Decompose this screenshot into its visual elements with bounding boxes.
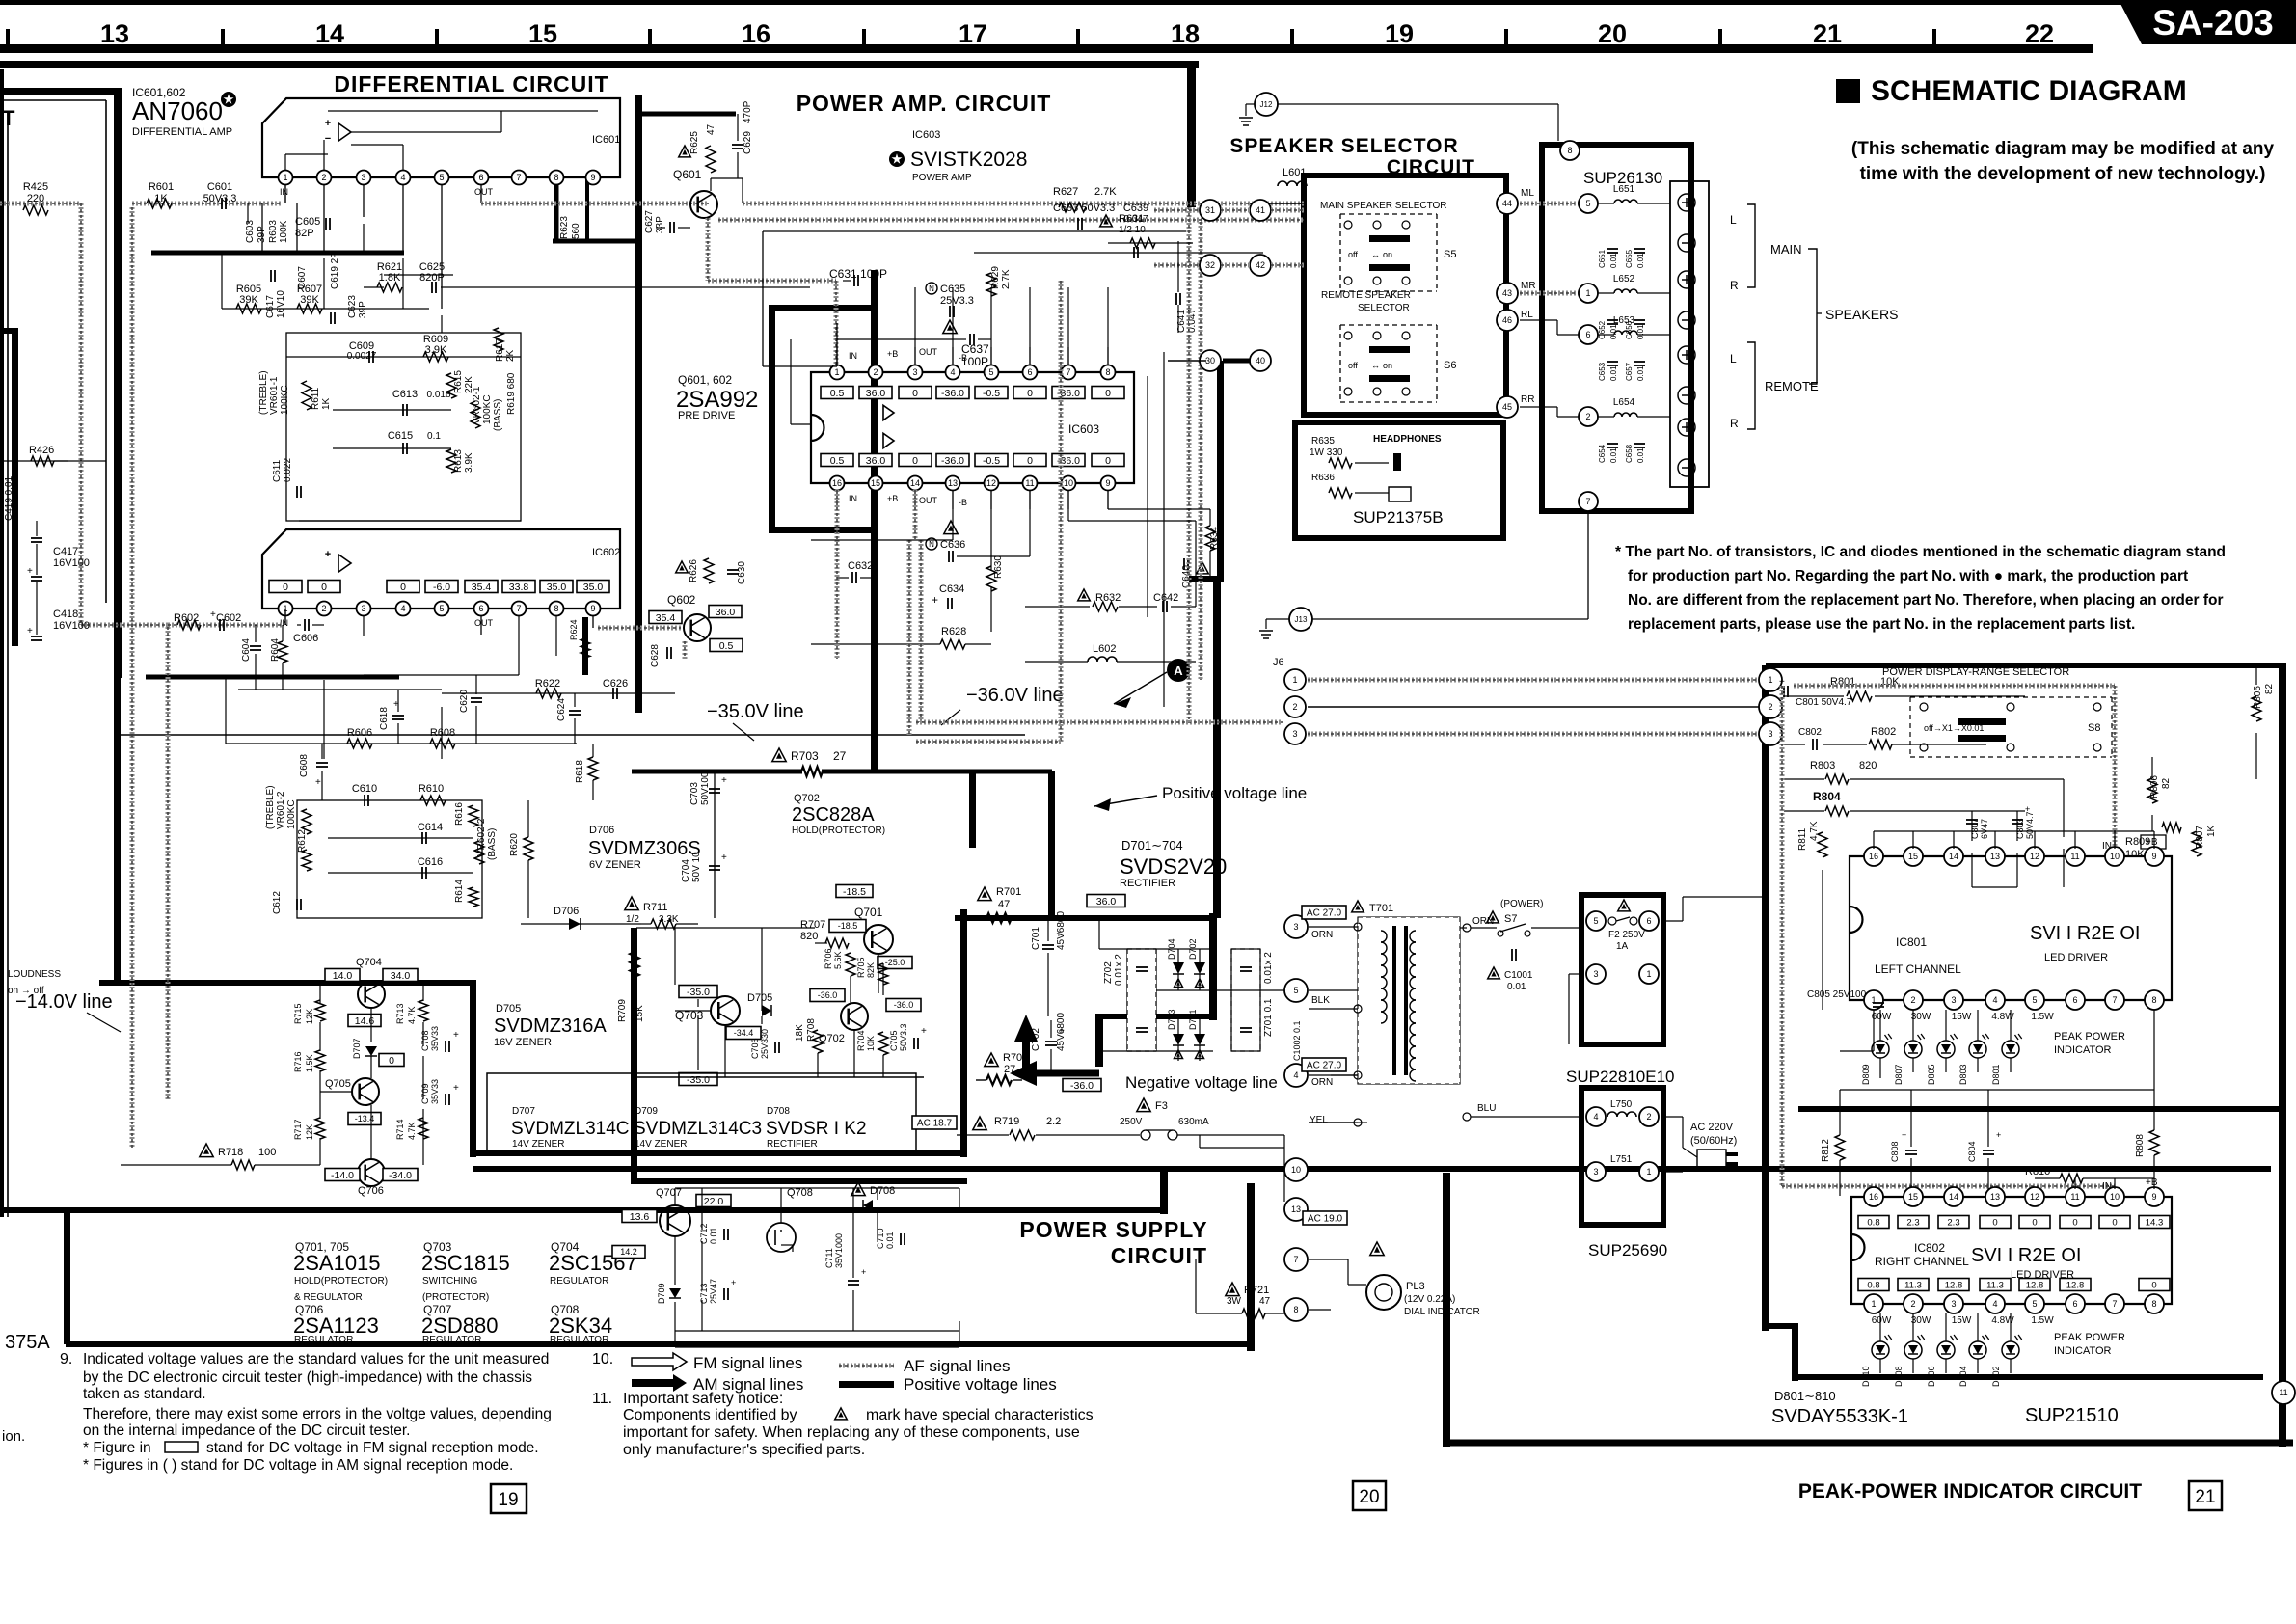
svg-text:R627: R627 <box>1053 186 1078 198</box>
svg-text:2: 2 <box>1768 702 1772 712</box>
svg-text:R714: R714 <box>395 1119 405 1140</box>
svg-text:11: 11 <box>2070 852 2079 861</box>
svg-text:18: 18 <box>1171 19 1200 48</box>
svg-text:off→X1→X0.01: off→X1→X0.01 <box>1924 723 1984 733</box>
svg-text:C613: C613 <box>392 389 418 400</box>
svg-text:13: 13 <box>1990 852 2000 861</box>
svg-text:SVDMZL314C: SVDMZL314C <box>511 1119 630 1139</box>
svg-text:L654: L654 <box>1613 397 1635 408</box>
svg-text:100KC: 100KC <box>280 385 290 415</box>
svg-text:Q702: Q702 <box>794 793 820 804</box>
svg-text:R721: R721 <box>1244 1285 1269 1296</box>
svg-text:(This schematic diagram may be: (This schematic diagram may be modified … <box>1851 139 2275 159</box>
svg-text:C657: C657 <box>1625 362 1634 381</box>
svg-text:2: 2 <box>1910 1299 1915 1309</box>
svg-text:82: 82 <box>2161 777 2172 789</box>
svg-text:12.8: 12.8 <box>1945 1280 1963 1290</box>
svg-text:SVDMZ316A: SVDMZ316A <box>494 1015 607 1037</box>
svg-text:3: 3 <box>1293 922 1298 932</box>
svg-text:12K: 12K <box>305 1009 314 1024</box>
svg-text:7: 7 <box>1293 1255 1298 1264</box>
svg-text:2: 2 <box>321 173 326 182</box>
svg-text:IC602: IC602 <box>592 547 620 558</box>
svg-text:3.9K: 3.9K <box>464 452 474 473</box>
svg-text:8: 8 <box>1567 146 1572 155</box>
svg-text:on: on <box>1383 361 1392 370</box>
svg-text:off: off <box>1348 250 1358 259</box>
svg-text:16V ZENER: 16V ZENER <box>494 1037 552 1048</box>
svg-text:21: 21 <box>1813 19 1842 48</box>
svg-text:7: 7 <box>2112 995 2117 1005</box>
svg-text:T701: T701 <box>1369 903 1393 914</box>
svg-text:0.5: 0.5 <box>830 388 845 399</box>
svg-text:D707: D707 <box>352 1038 362 1059</box>
svg-text:MAIN: MAIN <box>1770 242 1802 257</box>
svg-text:0.1: 0.1 <box>427 431 441 442</box>
svg-text:SWITCHING: SWITCHING <box>422 1276 477 1286</box>
svg-text:4: 4 <box>1293 1070 1298 1080</box>
svg-text:D801∼810: D801∼810 <box>1774 1389 1836 1403</box>
svg-text:50V3.3: 50V3.3 <box>899 1023 908 1051</box>
svg-text:36.0: 36.0 <box>1096 896 1117 907</box>
svg-text:-6.0: -6.0 <box>433 582 450 593</box>
svg-text:R716: R716 <box>293 1051 303 1072</box>
svg-text:C606: C606 <box>293 633 318 644</box>
svg-text:0.0027: 0.0027 <box>347 351 377 362</box>
svg-text:R614: R614 <box>454 880 465 903</box>
svg-text:9: 9 <box>590 604 595 613</box>
svg-text:C607: C607 <box>297 266 308 289</box>
svg-text:+: + <box>210 609 216 620</box>
svg-text:35.4: 35.4 <box>656 612 676 624</box>
svg-text:D709: D709 <box>657 1283 666 1304</box>
svg-text:15K: 15K <box>635 1005 645 1022</box>
svg-text:C652: C652 <box>1598 320 1607 339</box>
svg-text:16: 16 <box>1869 1192 1878 1202</box>
svg-text:D809: D809 <box>1861 1064 1871 1085</box>
svg-text:1.8K: 1.8K <box>379 272 401 284</box>
svg-text:R704: R704 <box>856 1030 866 1051</box>
svg-text:& REGULATOR: & REGULATOR <box>294 1292 363 1303</box>
svg-text:0.01x 2: 0.01x 2 <box>1114 954 1124 986</box>
svg-text:0.01: 0.01 <box>1636 365 1645 381</box>
svg-text:C801 50V4.7: C801 50V4.7 <box>1796 697 1852 708</box>
svg-text:important for safety. When rep: important for safety. When replacing any… <box>623 1424 1080 1441</box>
svg-text:1.5W: 1.5W <box>2031 1012 2054 1022</box>
svg-text:D705: D705 <box>747 992 772 1004</box>
svg-text:J13: J13 <box>1295 615 1308 624</box>
svg-text:L652: L652 <box>1613 274 1635 284</box>
svg-text:47: 47 <box>998 899 1010 910</box>
svg-text:R634: R634 <box>1209 527 1220 550</box>
svg-text:21: 21 <box>2195 1487 2215 1507</box>
svg-text:DIAL INDICATOR: DIAL INDICATOR <box>1404 1307 1480 1317</box>
svg-text:15: 15 <box>528 19 557 48</box>
svg-text:C601: C601 <box>207 181 232 193</box>
svg-text:R612: R612 <box>297 829 308 853</box>
svg-text:-36.0: -36.0 <box>1070 1080 1094 1092</box>
svg-text:CIRCUIT: CIRCUIT <box>1111 1243 1207 1268</box>
svg-text:2: 2 <box>1646 1112 1651 1122</box>
svg-text:ion.: ion. <box>2 1428 25 1445</box>
svg-text:2.3: 2.3 <box>1947 1217 1959 1228</box>
svg-text:R811: R811 <box>1797 827 1808 851</box>
svg-text:POWER AMP: POWER AMP <box>912 173 972 183</box>
svg-text:30W: 30W <box>1911 1012 1931 1022</box>
svg-text:+: + <box>27 566 33 577</box>
svg-text:39K: 39K <box>300 294 319 306</box>
svg-text:R425: R425 <box>23 181 48 193</box>
svg-text:50V3.3: 50V3.3 <box>203 193 237 204</box>
svg-text:6: 6 <box>478 604 483 613</box>
svg-text:R624: R624 <box>569 619 579 640</box>
svg-text:C418: C418 <box>53 609 78 620</box>
svg-text:-36.0: -36.0 <box>818 990 838 1000</box>
svg-text:0.022: 0.022 <box>283 458 293 482</box>
svg-text:Q707: Q707 <box>656 1187 682 1199</box>
svg-text:+B: +B <box>887 494 898 503</box>
svg-text:0: 0 <box>1992 1217 1997 1228</box>
svg-text:25V47: 25V47 <box>709 1279 718 1304</box>
svg-text:R803: R803 <box>1810 760 1835 771</box>
svg-text:SUP22810E10: SUP22810E10 <box>1566 1068 1674 1086</box>
svg-text:RECTIFIER: RECTIFIER <box>1120 878 1175 889</box>
svg-text:100KC: 100KC <box>482 394 493 424</box>
svg-text:S8: S8 <box>2088 722 2100 734</box>
svg-text:OUT: OUT <box>919 347 938 357</box>
svg-text:3.9K: 3.9K <box>425 344 447 356</box>
svg-text:11: 11 <box>1025 478 1034 488</box>
svg-text:Negative voltage line: Negative voltage line <box>1125 1073 1278 1092</box>
svg-text:10K: 10K <box>2125 849 2145 860</box>
svg-text:−14.0V line: −14.0V line <box>15 991 113 1013</box>
svg-text:8: 8 <box>2151 1299 2156 1309</box>
svg-text:−: − <box>325 133 331 145</box>
svg-text:C656: C656 <box>1625 320 1634 339</box>
svg-text:1: 1 <box>1646 1167 1651 1177</box>
svg-text:15: 15 <box>871 478 880 488</box>
svg-text:R719: R719 <box>994 1116 1019 1127</box>
svg-text:C616: C616 <box>418 856 443 868</box>
svg-text:+: + <box>721 775 727 786</box>
svg-text:2SC828A: 2SC828A <box>792 804 875 826</box>
svg-text:−35.0V line: −35.0V line <box>707 701 804 722</box>
svg-text:5: 5 <box>988 367 993 377</box>
svg-text:0.5: 0.5 <box>830 455 845 467</box>
svg-text:11.: 11. <box>592 1391 612 1407</box>
svg-text:31: 31 <box>1205 205 1215 215</box>
svg-text:14: 14 <box>1949 1192 1958 1202</box>
svg-text:0.01: 0.01 <box>1609 365 1618 381</box>
svg-text:+: + <box>921 1026 927 1037</box>
svg-text:4.7K: 4.7K <box>407 1122 417 1140</box>
svg-text:* Figure in: * Figure in <box>83 1440 151 1456</box>
svg-text:C639: C639 <box>1123 203 1148 214</box>
svg-text:14: 14 <box>1949 852 1958 861</box>
svg-text:R632: R632 <box>1095 592 1121 604</box>
svg-text:39K: 39K <box>239 294 258 306</box>
svg-text:L602: L602 <box>1093 643 1116 655</box>
svg-text:-36.0: -36.0 <box>941 388 964 399</box>
svg-text:IN: IN <box>849 494 857 503</box>
svg-text:4.7K: 4.7K <box>1809 821 1820 841</box>
svg-text:R608: R608 <box>430 727 455 739</box>
svg-text:AC 27.0: AC 27.0 <box>1307 1061 1342 1071</box>
svg-text:1: 1 <box>834 367 839 377</box>
svg-text:SVI I R2E OI: SVI I R2E OI <box>2030 923 2140 944</box>
svg-text:17: 17 <box>959 19 987 48</box>
svg-text:Therefore, there may exist som: Therefore, there may exist some errors i… <box>83 1406 552 1422</box>
svg-text:R707: R707 <box>800 919 825 931</box>
svg-text:+: + <box>1056 930 1062 940</box>
svg-text:R610: R610 <box>419 783 444 795</box>
svg-text:2: 2 <box>321 604 326 613</box>
svg-text:N: N <box>929 540 934 549</box>
svg-text:9: 9 <box>2151 852 2156 861</box>
svg-text:1: 1 <box>1646 969 1651 979</box>
svg-text:T: T <box>2 106 15 130</box>
svg-text:4: 4 <box>1992 1299 1997 1309</box>
svg-text:SPEAKERS: SPEAKERS <box>1825 307 1898 322</box>
svg-text:REGULATOR: REGULATOR <box>550 1276 608 1286</box>
svg-text:3: 3 <box>912 367 917 377</box>
svg-text:stand for DC voltage in FM sig: stand for DC voltage in FM signal recept… <box>206 1440 539 1456</box>
svg-text:9: 9 <box>590 173 595 182</box>
svg-text:SVDMZL314C3: SVDMZL314C3 <box>634 1119 762 1139</box>
svg-text:560: 560 <box>571 223 581 239</box>
svg-text:12: 12 <box>2030 852 2039 861</box>
svg-text:6: 6 <box>2072 995 2077 1005</box>
svg-text:R: R <box>1730 417 1739 430</box>
svg-text:+: + <box>731 1278 736 1287</box>
svg-text:0.01: 0.01 <box>1636 253 1645 268</box>
svg-text:250V: 250V <box>1120 1117 1143 1127</box>
svg-text:FM signal lines: FM signal lines <box>693 1354 802 1372</box>
svg-text:OUT: OUT <box>919 496 938 505</box>
svg-text:-34.0: -34.0 <box>389 1170 412 1181</box>
svg-text:R703: R703 <box>791 749 819 763</box>
svg-text:13: 13 <box>1291 1204 1301 1214</box>
svg-text:630mA: 630mA <box>1178 1117 1209 1127</box>
svg-text:IC802: IC802 <box>1914 1241 1945 1255</box>
svg-text:8: 8 <box>2151 995 2156 1005</box>
svg-text:R620: R620 <box>509 833 520 856</box>
svg-text:DIFFERENTIAL AMP: DIFFERENTIAL AMP <box>132 126 232 138</box>
svg-text:12K: 12K <box>305 1124 314 1140</box>
svg-text:Positive voltage line: Positive voltage line <box>1162 784 1307 802</box>
svg-text:SVI I R2E OI: SVI I R2E OI <box>1971 1245 2081 1266</box>
svg-text:0.01: 0.01 <box>885 1232 895 1249</box>
svg-text:C708: C708 <box>420 1030 430 1051</box>
svg-text:C802: C802 <box>1798 727 1822 738</box>
svg-text:time with the development of n: time with the development of new technol… <box>1860 164 2266 184</box>
svg-text:0: 0 <box>400 582 406 593</box>
svg-text:0: 0 <box>1027 455 1033 467</box>
svg-text:39P: 39P <box>358 301 368 318</box>
svg-text:11: 11 <box>2279 1388 2287 1397</box>
svg-text:+: + <box>27 626 33 636</box>
svg-text:OUT: OUT <box>474 187 494 197</box>
svg-text:4.8W: 4.8W <box>1991 1012 2014 1022</box>
svg-text:12: 12 <box>2030 1192 2039 1202</box>
svg-text:S5: S5 <box>1444 249 1456 260</box>
svg-text:R601: R601 <box>149 181 174 193</box>
svg-text:↔: ↔ <box>1371 361 1380 370</box>
svg-text:C627: C627 <box>644 210 655 233</box>
svg-text:3: 3 <box>1593 969 1598 979</box>
svg-text:C804: C804 <box>1967 1141 1977 1162</box>
svg-text:C808: C808 <box>1890 1141 1900 1162</box>
svg-text:AC 220V: AC 220V <box>1690 1122 1734 1133</box>
svg-text:2.7K: 2.7K <box>1001 269 1012 289</box>
svg-text:19: 19 <box>1385 19 1414 48</box>
svg-text:R718: R718 <box>218 1147 243 1158</box>
svg-text:L601: L601 <box>1283 167 1306 178</box>
svg-text:7: 7 <box>2112 1299 2117 1309</box>
svg-text:0.5: 0.5 <box>719 640 734 652</box>
svg-text:3: 3 <box>361 604 365 613</box>
svg-text:C623: C623 <box>347 295 358 318</box>
svg-text:2.7K: 2.7K <box>1094 186 1117 198</box>
svg-text:D701: D701 <box>1188 1009 1198 1030</box>
svg-text:by the DC electronic circuit t: by the DC electronic circuit tester (hig… <box>83 1369 532 1386</box>
svg-text:S7: S7 <box>1504 913 1517 925</box>
svg-text:12.8: 12.8 <box>2066 1280 2085 1290</box>
svg-text:47: 47 <box>1259 1296 1271 1307</box>
svg-text:VR601-2: VR601-2 <box>276 791 286 829</box>
svg-text:22: 22 <box>2025 19 2054 48</box>
svg-text:POWER AMP. CIRCUIT: POWER AMP. CIRCUIT <box>797 91 1052 116</box>
svg-text:Q702: Q702 <box>819 1033 845 1044</box>
svg-text:REMOTE: REMOTE <box>1765 379 1819 393</box>
svg-text:13.6: 13.6 <box>630 1211 650 1223</box>
svg-text:C704: C704 <box>681 859 691 882</box>
svg-text:Components identified by: Components identified by <box>623 1407 797 1423</box>
svg-text:60W: 60W <box>1872 1315 1892 1326</box>
svg-text:16: 16 <box>742 19 770 48</box>
svg-text:off: off <box>1348 361 1358 370</box>
svg-text:REGULATOR: REGULATOR <box>294 1335 353 1345</box>
svg-text:19: 19 <box>498 1490 518 1510</box>
svg-text:41: 41 <box>1256 205 1265 215</box>
svg-text:R625: R625 <box>689 131 700 154</box>
svg-text:R702: R702 <box>1003 1052 1028 1064</box>
svg-text:MAIN SPEAKER SELECTOR: MAIN SPEAKER SELECTOR <box>1320 201 1447 211</box>
svg-text:16V10: 16V10 <box>276 290 286 318</box>
svg-text:C1001: C1001 <box>1504 970 1533 981</box>
svg-text:A: A <box>1174 663 1183 678</box>
svg-text:only manufacturer's specified: only manufacturer's specified parts. <box>623 1442 865 1458</box>
svg-text:36.0: 36.0 <box>716 607 736 618</box>
svg-text:820: 820 <box>800 931 818 942</box>
svg-text:14.3: 14.3 <box>2146 1217 2164 1228</box>
svg-text:0: 0 <box>912 388 918 399</box>
svg-text:SVDMZ306S: SVDMZ306S <box>588 838 701 859</box>
svg-text:* Figures in ( ) stand fo: * Figures in ( ) stand for DC voltage in… <box>83 1457 513 1474</box>
svg-text:+: + <box>1996 1130 2001 1140</box>
svg-text:0: 0 <box>1027 388 1033 399</box>
svg-text:D805: D805 <box>1927 1064 1936 1085</box>
svg-text:0.01: 0.01 <box>1609 324 1618 339</box>
svg-text:IN: IN <box>849 351 857 361</box>
svg-text:replacement parts, please use: replacement parts, please use the part N… <box>1628 616 2135 633</box>
svg-text:2: 2 <box>873 367 878 377</box>
svg-text:VR601-1: VR601-1 <box>269 376 280 415</box>
svg-text:11.3: 11.3 <box>1986 1280 2004 1290</box>
svg-text:7: 7 <box>1585 497 1590 506</box>
svg-text:IC601: IC601 <box>592 134 620 146</box>
svg-text:8: 8 <box>1105 367 1110 377</box>
svg-text:SVDAY5533K-1: SVDAY5533K-1 <box>1771 1406 1908 1427</box>
svg-text:L751: L751 <box>1610 1154 1633 1165</box>
svg-text:0: 0 <box>283 582 288 593</box>
svg-text:RIGHT CHANNEL: RIGHT CHANNEL <box>1875 1255 1969 1268</box>
svg-text:-25.0: -25.0 <box>885 958 905 967</box>
svg-text:16: 16 <box>1869 852 1878 861</box>
svg-text:C629: C629 <box>743 131 753 154</box>
svg-text:Q706: Q706 <box>358 1185 384 1197</box>
svg-text:2: 2 <box>1585 412 1590 421</box>
svg-text:D808: D808 <box>1894 1366 1904 1387</box>
svg-text:MR: MR <box>1521 281 1536 291</box>
svg-text:33P: 33P <box>655 216 665 233</box>
svg-text:C608: C608 <box>299 754 310 777</box>
svg-text:+: + <box>315 777 321 788</box>
svg-text:3: 3 <box>1768 729 1772 739</box>
svg-text:1/2 10: 1/2 10 <box>1119 225 1146 235</box>
svg-text:1: 1 <box>1871 1299 1876 1309</box>
svg-text:C617: C617 <box>265 295 276 318</box>
svg-text:D707: D707 <box>512 1106 535 1117</box>
svg-text:AC 27.0: AC 27.0 <box>1307 908 1342 919</box>
svg-text:D706: D706 <box>554 906 579 917</box>
svg-text:BLU: BLU <box>1477 1103 1496 1114</box>
svg-text:C630: C630 <box>737 561 747 584</box>
svg-text:5: 5 <box>439 173 444 182</box>
svg-text:14.2: 14.2 <box>620 1247 637 1257</box>
svg-text:R622: R622 <box>535 678 560 690</box>
svg-text:45: 45 <box>1502 402 1512 412</box>
svg-text:35.0: 35.0 <box>583 582 604 593</box>
svg-text:10: 10 <box>2110 1192 2120 1202</box>
svg-text:3: 3 <box>1593 1167 1598 1177</box>
svg-text:ORN: ORN <box>1311 930 1333 940</box>
svg-text:5: 5 <box>2032 995 2037 1005</box>
svg-text:15: 15 <box>1908 852 1918 861</box>
svg-text:D801: D801 <box>1991 1064 2001 1085</box>
svg-text:43: 43 <box>1502 288 1512 298</box>
svg-text:IC801: IC801 <box>1896 935 1927 949</box>
svg-text:(12V 0.22A): (12V 0.22A) <box>1404 1294 1455 1305</box>
svg-text:−36.0V line: −36.0V line <box>966 685 1064 706</box>
svg-text:16V100: 16V100 <box>53 557 90 569</box>
svg-text:D709: D709 <box>635 1106 658 1117</box>
svg-text:1K: 1K <box>154 193 168 204</box>
svg-text:IN: IN <box>2102 1181 2112 1192</box>
svg-text:SPEAKER SELECTOR: SPEAKER SELECTOR <box>1229 135 1458 157</box>
svg-text:(50/60Hz): (50/60Hz) <box>1690 1135 1737 1147</box>
svg-text:44: 44 <box>1502 199 1512 208</box>
svg-text:YEL: YEL <box>1310 1115 1328 1125</box>
svg-text:15W: 15W <box>1952 1012 1972 1022</box>
svg-text:PL3: PL3 <box>1406 1281 1425 1292</box>
svg-text:ORN: ORN <box>1472 916 1494 927</box>
svg-text:R623: R623 <box>559 216 570 239</box>
svg-text:D708: D708 <box>767 1106 790 1117</box>
svg-text:C605: C605 <box>295 216 320 228</box>
svg-text:DIFFERENTIAL CIRCUIT: DIFFERENTIAL CIRCUIT <box>334 71 608 96</box>
svg-text:2SC1815: 2SC1815 <box>421 1251 510 1275</box>
